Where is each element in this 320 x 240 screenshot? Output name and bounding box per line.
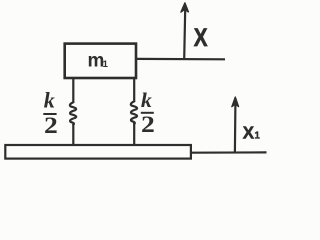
- label X1: [243, 123, 261, 143]
- spring right: top connector: [133, 78, 135, 102]
- svg-text:k: k: [44, 88, 55, 113]
- wire from base to X1 axis marker: [191, 151, 267, 154]
- background paper: [0, 0, 271, 168]
- svg-text:2: 2: [44, 113, 58, 138]
- label m1: [88, 50, 109, 71]
- wire from mass to X axis marker: [137, 58, 226, 61]
- svg-text:2: 2: [141, 112, 155, 137]
- arrow X (shaft): [184, 10, 185, 59]
- svg-text:k: k: [141, 88, 152, 112]
- base platform: [5, 145, 191, 159]
- spring right: coil k/2: [131, 101, 137, 123]
- arrow X1 (head): [232, 97, 239, 107]
- label k/2 left: [43, 88, 58, 139]
- label k/2 right: [141, 88, 155, 137]
- svg-text:X: X: [194, 24, 208, 52]
- arrow X1 (shaft): [234, 104, 237, 153]
- spring left: top connector: [72, 78, 74, 103]
- svg-text:1: 1: [103, 59, 109, 70]
- spring left: coil k/2: [70, 102, 76, 124]
- arrow X (head): [181, 3, 189, 12]
- svg-text:X: X: [243, 123, 254, 143]
- mass block m1: [65, 44, 136, 78]
- svg-text:1: 1: [254, 131, 260, 142]
- spring right: bottom connector: [133, 123, 135, 146]
- spring left: bottom connector: [72, 124, 74, 146]
